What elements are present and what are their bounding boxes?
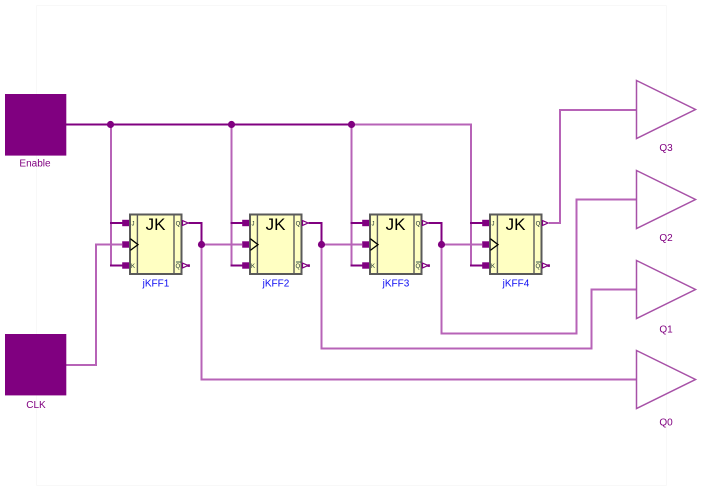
svg-text:jKFF4: jKFF4	[502, 279, 530, 290]
svg-text:Q0: Q0	[659, 418, 673, 429]
svg-text:Enable: Enable	[19, 159, 51, 170]
svg-text:CLK: CLK	[26, 400, 46, 411]
svg-text:jKFF1: jKFF1	[142, 279, 170, 290]
svg-text:jKFF3: jKFF3	[382, 279, 410, 290]
svg-text:jKFF2: jKFF2	[262, 279, 290, 290]
svg-text:Q2: Q2	[659, 233, 673, 244]
svg-text:Q1: Q1	[659, 325, 673, 336]
svg-text:Q3: Q3	[659, 143, 673, 154]
